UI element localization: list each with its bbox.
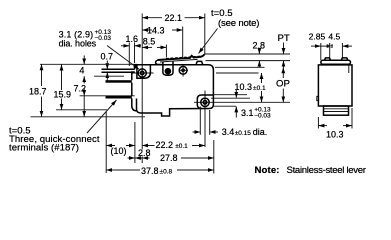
dimension 2.8 (free position) bbox=[253, 40, 266, 67]
extension line: body right edge down bbox=[213, 140, 215, 174]
svg-text:27.8: 27.8 bbox=[160, 153, 178, 163]
wire: hole1 horizontal centerline bbox=[133, 72, 154, 74]
svg-text:18.7: 18.7 bbox=[29, 87, 47, 97]
body left face lower bbox=[132, 72, 137, 111]
svg-text:1.6: 1.6 bbox=[126, 34, 139, 44]
body top extension L3 bbox=[215, 66, 265, 68]
hole1 boss square bbox=[137, 65, 151, 79]
svg-text:3.1: 3.1 bbox=[241, 108, 254, 118]
label t=0.5 Three, quick-connect terminals (#187) with leader bbox=[9, 100, 117, 154]
svg-text:0.7: 0.7 bbox=[101, 52, 114, 62]
note text bbox=[255, 165, 367, 176]
svg-text:(see note): (see note) bbox=[218, 18, 260, 29]
svg-text:8.5: 8.5 bbox=[143, 36, 156, 46]
side view terminal block bbox=[324, 106, 349, 115]
dimension 0.7 (terminal thickness) bbox=[101, 52, 114, 81]
dimension 37.8 +/-0.8 bbox=[106, 166, 214, 176]
dimension PT bbox=[278, 33, 290, 68]
svg-text:10.3: 10.3 bbox=[235, 82, 253, 92]
plunger cup bbox=[163, 62, 173, 76]
side view lever nubs bbox=[325, 58, 348, 60]
wire: hole2 vertical centerline bbox=[204, 91, 206, 148]
svg-text:terminals (#187): terminals (#187) bbox=[9, 143, 79, 154]
dimension 3.1 +0.13/-0.03 bbox=[211, 90, 271, 120]
side view body bbox=[318, 65, 352, 106]
label t=0.5 (see note) with leader bbox=[199, 8, 260, 54]
wire: hole1 vertical centerline bbox=[141, 14, 143, 150]
side view inner edge line bbox=[348, 65, 350, 73]
dimension OP bbox=[276, 67, 290, 102]
svg-text:−0.03: −0.03 bbox=[254, 112, 271, 119]
quick-connect terminal 2 (black bar) bbox=[106, 80, 132, 83]
svg-text:Stainless-steel lever: Stainless-steel lever bbox=[287, 165, 367, 176]
svg-text:dia. holes: dia. holes bbox=[59, 38, 97, 48]
svg-text:14.3: 14.3 bbox=[147, 25, 165, 35]
mounting hole 1 (top-left) bbox=[138, 69, 146, 77]
plunger pin (dark dot) bbox=[165, 68, 172, 75]
side view lever plate bbox=[321, 60, 351, 64]
quick-connect terminal 1 (outline, with 0.7 thickness) bbox=[102, 69, 135, 72]
wire: hole2 horizontal centerline bbox=[194, 101, 216, 103]
hole1 centerline extension L4 bbox=[216, 72, 259, 74]
svg-text:3.4: 3.4 bbox=[222, 127, 235, 137]
side view dimension 2.85 / 4.5 bbox=[309, 32, 352, 60]
label 3.1 (2.9) +0.13/-0.03 dia. holes with leader bbox=[59, 29, 139, 69]
svg-text:±0.15: ±0.15 bbox=[235, 130, 252, 137]
side view dimension 10.3 bbox=[318, 108, 352, 140]
svg-text:15.9: 15.9 bbox=[54, 90, 72, 100]
lever stop bump on body top bbox=[196, 61, 203, 64]
svg-text:±0.1: ±0.1 bbox=[253, 85, 266, 92]
dimension 3.4 +/-0.15 dia. bbox=[193, 107, 268, 138]
extension line: body left edge down bbox=[134, 122, 136, 163]
switch body outline (main view) bbox=[135, 65, 214, 116]
dimension 10.3 +/-0.1 bbox=[235, 73, 266, 102]
dimension (10) bbox=[106, 146, 135, 156]
mounting hole 2 (bottom-right) bbox=[201, 98, 209, 106]
svg-text:37.8: 37.8 bbox=[141, 166, 159, 176]
dimension 4 bbox=[40, 56, 137, 84]
svg-text:dia.: dia. bbox=[253, 127, 268, 137]
svg-text:4.5: 4.5 bbox=[328, 32, 340, 42]
lever hook bbox=[156, 60, 165, 65]
lever underline bbox=[160, 59, 198, 62]
svg-text:2.8: 2.8 bbox=[253, 40, 266, 50]
side view left notch bbox=[317, 96, 319, 100]
svg-text:2.85: 2.85 bbox=[309, 32, 326, 42]
lever pivot rivet bbox=[179, 66, 188, 77]
hinge lever (t=0.5 stainless steel) bbox=[158, 54, 205, 60]
extension line: terminal tips down bbox=[105, 112, 107, 173]
free position line L1 bbox=[204, 53, 290, 55]
dimension 22.2 +/-0.1 bbox=[142, 140, 205, 150]
hole 2 boss bbox=[197, 95, 213, 109]
dimension 27.8 bbox=[135, 153, 214, 163]
svg-text:Note:: Note: bbox=[255, 165, 280, 176]
quick-connect terminal 3 (black bar) bbox=[106, 96, 132, 99]
dimension 7.2 bbox=[74, 84, 135, 117]
svg-text:2.8: 2.8 bbox=[138, 148, 151, 158]
svg-text:(10): (10) bbox=[111, 146, 127, 156]
dimension 1.6 bbox=[121, 34, 141, 66]
dimension 18.7 bbox=[29, 64, 145, 117]
svg-text:±0.8: ±0.8 bbox=[160, 169, 173, 176]
dimension 8.5 bbox=[142, 36, 166, 57]
svg-text:OP: OP bbox=[276, 79, 290, 90]
OP line L2 bbox=[206, 60, 291, 62]
svg-text:10.3: 10.3 bbox=[326, 130, 344, 140]
svg-text:PT: PT bbox=[278, 33, 290, 44]
svg-text:22.2: 22.2 bbox=[156, 140, 174, 150]
dimension 15.9 bbox=[54, 65, 108, 110]
dimension 14.3 bbox=[142, 25, 183, 58]
svg-text:22.1: 22.1 bbox=[165, 13, 183, 23]
dimension 2.8 (hole inset) bbox=[128, 148, 151, 158]
svg-text:−0.03: −0.03 bbox=[95, 35, 112, 42]
dimension 22.1 bbox=[142, 13, 205, 54]
svg-text:±0.1: ±0.1 bbox=[175, 143, 188, 150]
hole2 centerline extension L5 bbox=[216, 101, 290, 103]
svg-text:4: 4 bbox=[79, 65, 84, 75]
